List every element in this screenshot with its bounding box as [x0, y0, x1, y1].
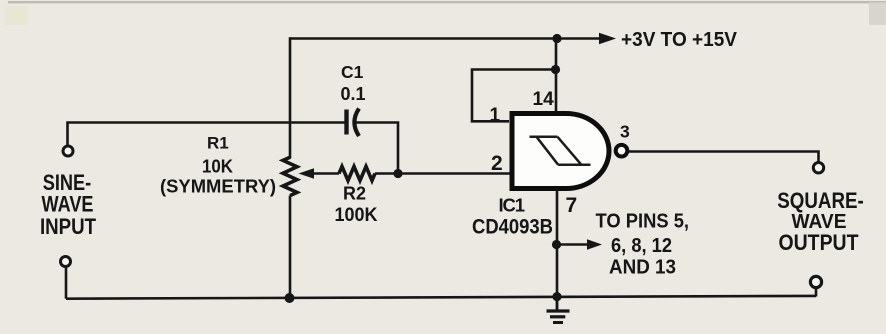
- wire output pin 3 to terminal: [629, 152, 819, 163]
- svg-text:R1: R1: [207, 134, 229, 153]
- wire supply drop to pin 14: [555, 39, 558, 115]
- terminal square output bottom: [810, 276, 821, 287]
- label SQUARE-WAVE OUTPUT: [777, 188, 864, 255]
- wire sine input bottom: [65, 267, 68, 299]
- arrow to pins 5 6 8 12 13: [559, 239, 602, 249]
- wire top supply rail: [290, 37, 601, 40]
- node junction to-pins arrow: [552, 240, 561, 249]
- label TO PINS 5, 6, 8, 12 AND 13: [596, 211, 690, 279]
- svg-text:6, 8, 12: 6, 8, 12: [611, 235, 672, 257]
- node junction ground symbol: [552, 292, 561, 301]
- wire C1 to node: [356, 123, 398, 172]
- op-amp gate IC1 CD4093B body: [512, 114, 609, 189]
- svg-text:14: 14: [533, 89, 555, 110]
- svg-text:3: 3: [620, 122, 630, 142]
- svg-text:R2: R2: [343, 184, 366, 204]
- terminal sine input top: [63, 146, 73, 156]
- supply arrow +3V TO +15V: [599, 33, 616, 44]
- svg-text:WAVE: WAVE: [42, 192, 94, 217]
- svg-text:(SYMMETRY): (SYMMETRY): [160, 176, 276, 197]
- label C1 value: [341, 62, 366, 104]
- svg-text:TO PINS 5,: TO PINS 5,: [596, 211, 690, 233]
- node junction supply rail: [552, 34, 561, 43]
- svg-text:IC1: IC1: [499, 194, 526, 215]
- wire vertical left branch upper (x=290 from rail to R1 top): [289, 37, 292, 158]
- label SINE-WAVE INPUT: [40, 170, 96, 239]
- label IC1 CD4093B: [472, 194, 553, 238]
- svg-text:2: 2: [491, 152, 503, 175]
- resistor R1 potentiometer: [283, 157, 297, 195]
- capacitor C1: [347, 109, 360, 137]
- wire vertical left branch lower (R1 bottom to ground rail): [289, 196, 292, 299]
- resistor R2: [339, 167, 375, 181]
- label R2 100K: [335, 184, 378, 227]
- svg-text:1: 1: [490, 105, 501, 126]
- svg-text:CD4093B: CD4093B: [472, 216, 553, 239]
- svg-text:100K: 100K: [335, 204, 378, 226]
- wire sine input top: [68, 123, 345, 146]
- wire pin 7 down to ground rail: [556, 189, 559, 297]
- svg-text:C1: C1: [341, 62, 364, 82]
- svg-text:AND 13: AND 13: [609, 256, 676, 279]
- node junction pin14/pin1: [551, 65, 560, 74]
- ground: [547, 297, 570, 323]
- terminal square output top: [813, 163, 823, 173]
- node junction left branch to rail: [285, 293, 295, 303]
- node junction C1/R2/pin2: [393, 169, 402, 178]
- wire R2 to gate pin 2: [375, 172, 510, 175]
- terminal sine input bottom: [61, 257, 71, 267]
- svg-text:+3V TO +15V: +3V TO +15V: [621, 28, 737, 51]
- svg-text:INPUT: INPUT: [40, 214, 96, 239]
- svg-text:OUTPUT: OUTPUT: [779, 230, 859, 255]
- svg-text:7: 7: [566, 194, 578, 217]
- schmitt trigger hysteresis symbol: [530, 137, 591, 165]
- wire bracket to pin 1: [472, 70, 556, 122]
- svg-text:0.1: 0.1: [341, 84, 366, 104]
- wire output bottom terminal to rail: [815, 288, 818, 297]
- label R1 10K (SYMMETRY): [160, 134, 276, 197]
- wire bottom ground rail: [66, 296, 816, 299]
- output bubble of gate: [616, 145, 628, 157]
- svg-text:10K: 10K: [202, 156, 234, 177]
- wiper arrow of R1: [299, 168, 340, 178]
